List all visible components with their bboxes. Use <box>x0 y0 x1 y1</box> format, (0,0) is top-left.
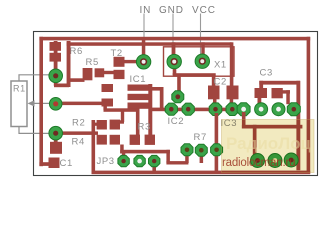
resistor R3 pad 1 <box>130 135 140 145</box>
relay pad 2 <box>268 154 282 168</box>
watermark stamp <box>222 120 315 173</box>
wire C3 top <box>259 81 300 85</box>
op-amp IC1 pad left 2 <box>102 99 114 107</box>
wire relay horizontal <box>242 125 303 129</box>
resistor R5 pad 1 <box>83 68 93 80</box>
relay pad 1 <box>251 154 265 168</box>
resistor R7 pad 3 <box>211 144 223 156</box>
wire T2 to IN <box>124 60 140 63</box>
left pad 3 <box>49 126 63 140</box>
capacitor C2 pad 1 <box>208 86 220 100</box>
IC3 pad 1 <box>209 103 222 116</box>
wire IN pad to border <box>142 39 146 57</box>
wire horizontal to R5 <box>69 78 85 82</box>
wire R7 pad1 stub <box>185 154 189 163</box>
svg-text:JP3: JP3 <box>97 156 115 167</box>
resistor R7 pad 2 <box>195 144 207 156</box>
wire to C2 left <box>212 75 216 87</box>
svg-text:GND: GND <box>159 5 184 16</box>
pad row 5 <box>237 103 250 116</box>
wire relay down <box>242 112 246 129</box>
wire VCC top trace <box>67 42 232 46</box>
svg-text:R6: R6 <box>70 46 83 57</box>
pad VCC <box>195 54 209 68</box>
pad row 6 <box>255 103 268 116</box>
capacitor C1 pad 1 <box>50 142 62 154</box>
wire C2r down <box>230 99 234 111</box>
capacitor C3 pad 2 <box>272 88 283 98</box>
wire elbow down to row <box>160 87 164 110</box>
wire row connector <box>233 108 247 111</box>
wire JP3 up leg <box>120 145 124 154</box>
resistor R4 pad 1 <box>97 135 107 145</box>
wire IC1 right vertical <box>148 84 152 136</box>
resistor R2 pad 1 <box>97 120 107 130</box>
wire VCC stub <box>201 42 204 55</box>
wire right long vertical <box>296 81 300 170</box>
wire octagon stub <box>177 76 181 92</box>
wire IC1 elbow right <box>150 87 162 91</box>
board outline <box>34 32 318 176</box>
svg-text:C3: C3 <box>260 68 273 79</box>
svg-text:R1: R1 <box>13 84 26 94</box>
wire R2 left stub <box>92 123 98 126</box>
resistor R3 pad 2 <box>145 135 155 145</box>
op-amp IC1 bar 1 <box>128 85 152 91</box>
wire C3 left down <box>259 81 263 90</box>
IC2 pad 1 <box>165 103 177 115</box>
capacitor C2 pad 2 <box>227 86 239 100</box>
wire pad2 to IC1 <box>60 102 103 106</box>
wire R1 bottom <box>19 127 51 134</box>
border trace left <box>39 37 43 166</box>
wire R1 top <box>19 75 51 81</box>
border trace bottom <box>92 171 311 175</box>
op-amp IC1 bar 3 <box>128 103 152 109</box>
svg-text:VCC: VCC <box>192 5 216 16</box>
leader line IN <box>143 14 145 61</box>
resistor R5 pad 2 <box>95 68 105 77</box>
resistor R2 pad 2 <box>110 120 120 130</box>
border trace right <box>307 37 311 174</box>
wire IC1 left down <box>103 104 107 110</box>
left pad 2 <box>49 98 62 111</box>
leader line GND <box>172 14 174 61</box>
wire R6 vertical <box>54 41 58 70</box>
svg-text:РадиоЛоц: РадиоЛоц <box>226 134 312 153</box>
svg-text:C1: C1 <box>60 158 73 169</box>
capacitor C1 pad 2 <box>49 158 60 169</box>
svg-text:R3: R3 <box>138 122 151 133</box>
wire trace down to C2 <box>230 42 234 87</box>
op-amp IC1 bar 2 <box>128 94 152 100</box>
wire JP3 right down <box>166 150 170 163</box>
wire C3 stub <box>282 90 290 93</box>
svg-text:X1: X1 <box>214 60 227 71</box>
wire JP3 pad1 stub <box>122 152 125 158</box>
wire GND down <box>173 62 177 75</box>
wire R2 right elbow <box>118 120 125 123</box>
IC3 pad 2 <box>226 103 239 116</box>
wire C1 to border <box>39 162 50 166</box>
wire GND stub up <box>172 42 176 55</box>
wire relay left vertical <box>253 125 257 156</box>
pad row 7 <box>272 103 285 116</box>
resistor R1 body <box>11 81 27 127</box>
wire R7 pad2 stub <box>200 155 204 163</box>
left pad 1 <box>49 69 63 83</box>
watermark stamp edge <box>222 120 315 173</box>
wire vertical x68 <box>67 41 71 87</box>
connector X1 outline <box>164 47 235 76</box>
wire R1 wiper <box>33 102 51 104</box>
wire JP3 horizontal <box>120 150 170 154</box>
pad GND <box>167 54 181 68</box>
svg-text:radiolocman.ru: radiolocman.ru <box>222 157 295 169</box>
wire IC1 bottom horizontal <box>104 108 140 112</box>
wire down to R3 <box>136 108 140 135</box>
wire row horizontal <box>149 108 233 112</box>
wire C3 left down stub <box>258 97 262 104</box>
svg-text:R4: R4 <box>72 137 85 148</box>
wire pad3 right <box>60 131 98 135</box>
wire elbow pad1 <box>54 84 69 88</box>
svg-text:R2: R2 <box>72 118 85 129</box>
resistor R6 pad 2 <box>50 53 62 62</box>
wire pad1 down <box>54 76 58 86</box>
wire JP3 to R7 <box>166 161 188 164</box>
pad row 8 <box>287 103 300 116</box>
capacitor C3 pad 1 <box>255 88 268 98</box>
via pad <box>172 91 184 103</box>
resistor R6 pad 1 <box>50 42 62 51</box>
op-amp IC1 pad left 1 <box>102 84 114 92</box>
resistor R7 pad 1 <box>181 144 193 156</box>
jumper JP3 pad 2 <box>134 155 145 166</box>
wire JP3 pad3 stub <box>152 164 156 171</box>
wire R2 up to IC1 <box>121 110 124 122</box>
R1 wiper arrow <box>28 100 35 106</box>
pad IN <box>136 55 150 69</box>
transistor T2 pad 2 <box>114 70 125 79</box>
relay pad 3 <box>284 153 298 167</box>
leader line VCC <box>200 14 202 60</box>
border trace top <box>39 37 310 41</box>
wire R7 pad3 stub <box>215 113 219 171</box>
wire left vertical x93 <box>92 120 96 174</box>
svg-text:IN: IN <box>140 5 152 16</box>
svg-text:IC2: IC2 <box>168 116 185 127</box>
wire C3 down to pad <box>286 90 290 104</box>
jumper JP3 pad 3 <box>149 155 160 166</box>
resistor R4 pad 2 <box>110 135 120 145</box>
wire pad3 to C1 <box>54 139 58 144</box>
wire GND right <box>173 73 216 77</box>
svg-text:R7: R7 <box>194 132 207 143</box>
wire R5 to T2 <box>104 71 114 74</box>
jumper JP3 pad 1 <box>118 155 129 166</box>
svg-text:IC1: IC1 <box>130 74 147 85</box>
svg-text:R5: R5 <box>86 57 99 68</box>
wire C2l down <box>213 99 217 111</box>
transistor T2 pad 1 <box>114 57 125 67</box>
IC2 pad 2 <box>182 103 194 115</box>
